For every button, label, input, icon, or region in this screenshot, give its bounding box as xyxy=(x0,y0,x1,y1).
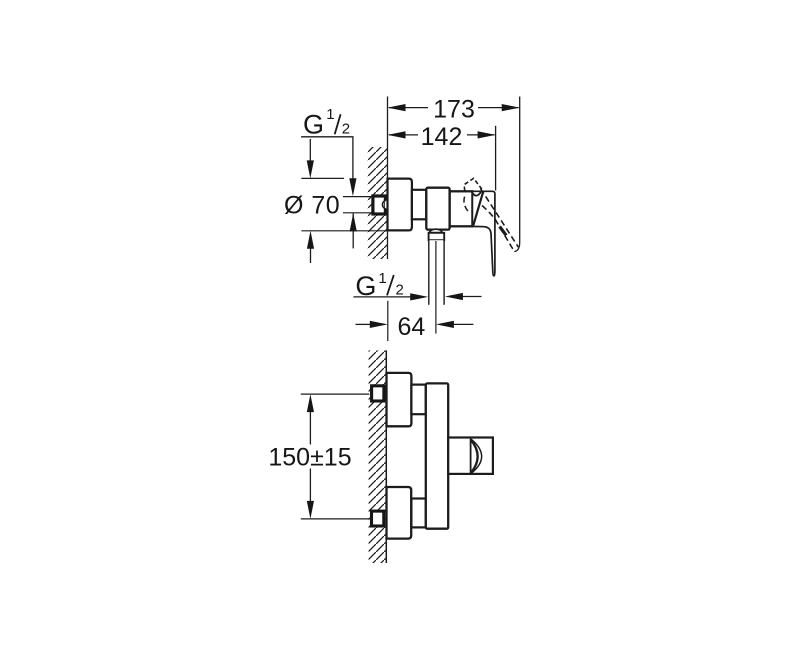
shower outlet pipe xyxy=(429,240,444,305)
svg-text:2: 2 xyxy=(342,120,350,137)
lever pivot wedge line xyxy=(473,191,483,226)
svg-text:Ø 70: Ø 70 xyxy=(284,191,340,219)
extension line right for 142 xyxy=(495,126,497,191)
bottom connector step (front view) xyxy=(411,499,425,528)
top connector step (front view) xyxy=(411,385,425,415)
dimension 64 xyxy=(356,301,474,341)
shower outlet nut xyxy=(429,233,445,240)
escutcheon flange (side view) xyxy=(388,179,412,231)
lever alternate position upper dashed line xyxy=(481,189,519,248)
label G 1/2 (top, wall connection) xyxy=(303,106,350,140)
lever alternate position lower dashed line xyxy=(482,206,514,252)
svg-text:142: 142 xyxy=(421,123,463,151)
wall hatch (front view) xyxy=(369,350,386,563)
cartridge dome arc xyxy=(472,191,482,196)
svg-text:64: 64 xyxy=(397,313,425,341)
lever handle pointing right (front view) xyxy=(448,438,493,474)
svg-text:G: G xyxy=(303,110,324,140)
wall hatch (side view) xyxy=(368,147,387,259)
leader line for bottom G 1/2 with arrows xyxy=(353,293,481,301)
extension lines of inlet nipple (G1/2 thread) xyxy=(343,197,371,213)
dimension 150±15 xyxy=(268,394,369,519)
dimension Ø 70 xyxy=(284,139,387,263)
bottom inlet nipple square (front view) xyxy=(372,511,384,526)
wall face line (side view), doubles as left extension line xyxy=(387,97,389,260)
svg-text:150±15: 150±15 xyxy=(268,443,351,471)
valve body (front view) xyxy=(426,383,448,528)
wall face line (front view) xyxy=(385,350,387,563)
svg-text:2: 2 xyxy=(396,281,404,298)
top escutcheon flange (front view) xyxy=(387,373,412,426)
bottom escutcheon flange (front view) xyxy=(387,487,412,539)
inlet nipple square (side view) xyxy=(373,196,387,214)
svg-text:1: 1 xyxy=(326,106,334,123)
leader line for top G 1/2 xyxy=(301,137,357,249)
connector piece between flange and body xyxy=(412,190,426,220)
lever alternate position thick dash xyxy=(500,227,509,239)
dimension 142 xyxy=(388,123,496,151)
cartridge rear housing xyxy=(450,191,473,226)
dimension 173 xyxy=(388,96,520,124)
lever alternate position (dashed pentagon) xyxy=(464,178,481,191)
svg-text:1: 1 xyxy=(378,270,386,287)
pipe centre line / extension line for 64 xyxy=(435,241,437,334)
hidden cartridge circle (dashed arc) xyxy=(464,197,468,212)
lever cap and down-pointing lever blade xyxy=(472,191,495,275)
shower outlet dome xyxy=(429,229,442,233)
extension line right for 173 (with hooked end at lever tip) xyxy=(514,97,519,252)
svg-text:173: 173 xyxy=(433,96,475,124)
valve body (side view) xyxy=(426,188,449,230)
label G 1/2 (bottom, shower hose connection) xyxy=(355,270,403,301)
top inlet nipple square (front view) xyxy=(372,386,384,401)
